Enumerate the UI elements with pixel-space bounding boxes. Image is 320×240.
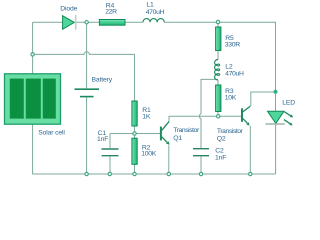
svg-text:1nF: 1nF (97, 136, 108, 143)
svg-text:Transistor: Transistor (217, 128, 244, 135)
svg-text:Diode: Diode (60, 5, 77, 12)
svg-text:22R: 22R (105, 9, 117, 16)
svg-text:330R: 330R (225, 42, 240, 49)
svg-text:10K: 10K (225, 95, 237, 102)
svg-text:Q1: Q1 (173, 135, 182, 142)
svg-text:Transistor: Transistor (173, 127, 200, 134)
svg-text:1K: 1K (142, 113, 151, 120)
svg-text:LED: LED (282, 100, 295, 107)
svg-text:C2: C2 (215, 147, 224, 154)
svg-text:Q2: Q2 (217, 136, 226, 143)
svg-text:470uH: 470uH (146, 9, 165, 16)
svg-text:Battery: Battery (92, 77, 113, 84)
svg-text:L1: L1 (146, 2, 154, 9)
svg-text:L2: L2 (225, 63, 233, 70)
svg-text:470uH: 470uH (225, 70, 244, 77)
svg-text:1nF: 1nF (215, 155, 226, 162)
svg-text:Solar cell: Solar cell (38, 129, 65, 136)
svg-text:100K: 100K (141, 151, 156, 158)
